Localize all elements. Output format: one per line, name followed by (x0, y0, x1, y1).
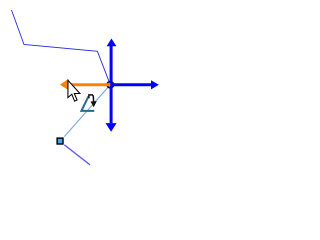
vertical axis arrow shaft (110, 46, 113, 124)
mouse cursor (68, 80, 80, 101)
node vertex square (57, 138, 63, 144)
wire line B (64, 145, 90, 165)
wire inference line A (64, 85, 110, 137)
horizontal orange arrow left head (60, 79, 69, 90)
horizontal orange arrow shaft (68, 83, 111, 86)
rotate arrow head (91, 101, 97, 107)
angle glyph (81, 96, 94, 111)
horizontal axis arrow right head (151, 80, 159, 89)
node endpoint circle (107, 81, 114, 88)
vertical axis arrow up head (107, 39, 117, 47)
vertical axis arrow down head (106, 123, 117, 132)
rotate arrow tail (89, 95, 94, 102)
wire sketch polyline (12, 10, 111, 85)
horizontal axis arrow right shaft (110, 83, 151, 86)
